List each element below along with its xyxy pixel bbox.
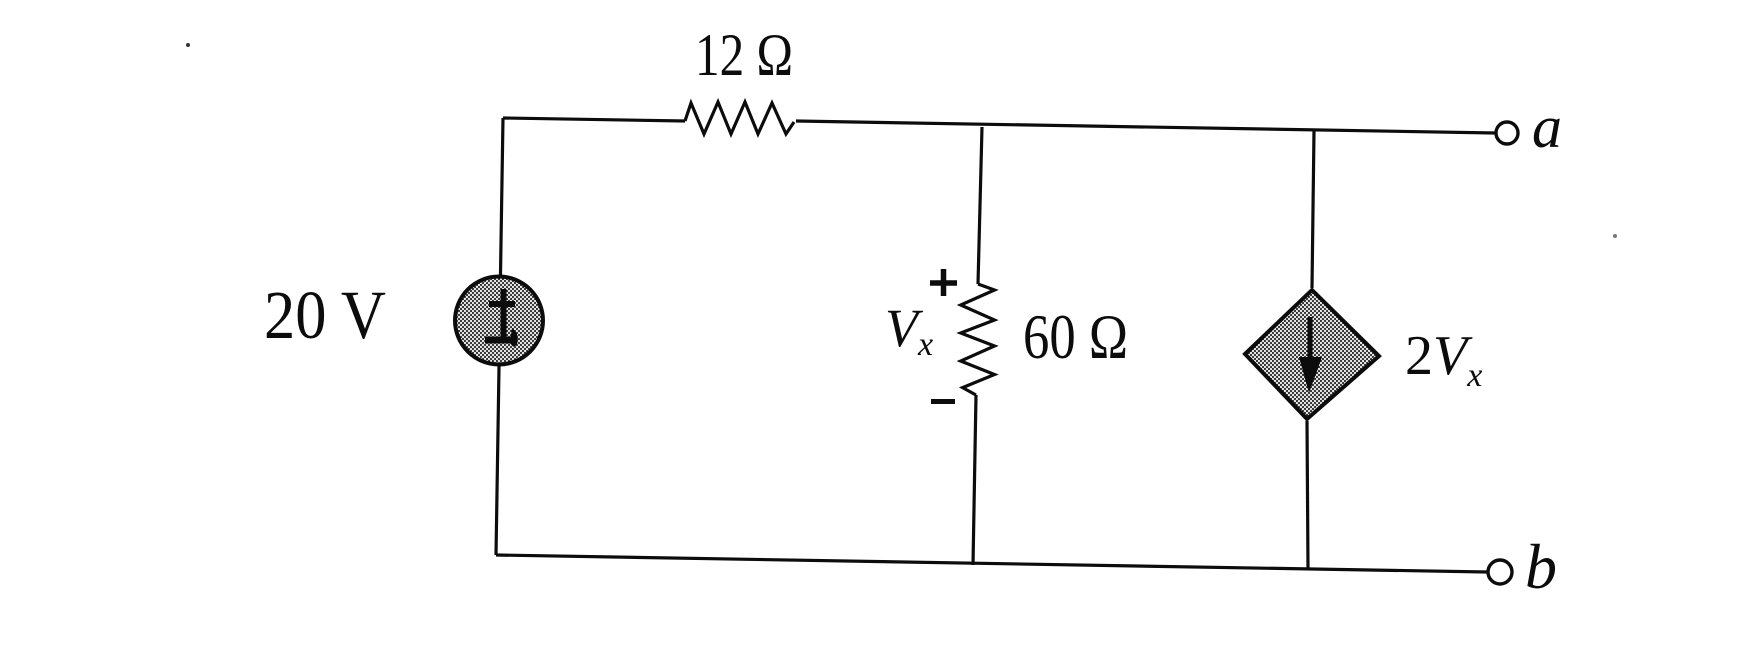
wire left vertical (through source) [496,118,503,555]
plus sign for Vx [930,269,957,296]
speck right [1613,234,1617,238]
wire right branch top [1312,131,1314,288]
svg-text:a: a [1532,94,1562,160]
wire right branch bottom [1307,421,1308,568]
wire bottom horizontal to terminal b [496,555,1487,572]
svg-text:20 V: 20 V [264,277,386,353]
plus sign inside source [489,289,515,338]
dependent source diamond 2Vx [1245,290,1379,419]
arrow inside dependent source [1308,317,1313,360]
wire middle branch top [978,127,982,284]
wire top-right horizontal segment to terminal a [796,121,1495,133]
voltage source V1 circle 20V [455,277,543,365]
svg-text:12 Ω: 12 Ω [695,22,793,88]
wire top-left horizontal segment [503,118,685,121]
resistor R 60 ohm vertical zigzag [961,284,995,395]
terminal b circle [1488,560,1512,584]
speck top-left [186,43,190,47]
resistor R 12 ohm zigzag [685,102,794,134]
minus sign for Vx [931,399,955,404]
terminal a circle [1496,122,1518,144]
wire middle branch bottom [973,395,976,565]
minus sign inside source [485,337,516,344]
svg-text:60 Ω: 60 Ω [1023,301,1128,372]
ink blob inside source [510,328,518,347]
svg-text:b: b [1525,531,1557,602]
